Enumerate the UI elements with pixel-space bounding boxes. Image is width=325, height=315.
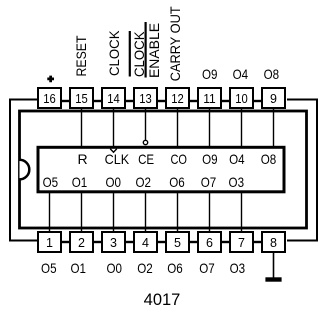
svg-text:O4: O4 bbox=[233, 66, 249, 82]
wire pin 4 to O2 bbox=[145, 192, 147, 231]
wire pin 7 to O3 bbox=[241, 192, 243, 231]
wire lead-frame loop left (pin 16 to pin 1) bbox=[10, 100, 38, 241]
svg-text:O4: O4 bbox=[229, 151, 245, 167]
wire pin 12 to CO bbox=[177, 109, 179, 147]
svg-text:O2: O2 bbox=[137, 260, 153, 276]
ground symbol bbox=[265, 277, 281, 281]
pin 13 bbox=[134, 88, 157, 108]
svg-text:O5: O5 bbox=[41, 260, 57, 276]
pin 14 bbox=[102, 88, 125, 108]
svg-text:O7: O7 bbox=[199, 260, 215, 276]
overline for ENABLE (pin 13) bbox=[145, 22, 147, 78]
wire pin 15 to R input bbox=[81, 109, 83, 147]
wire pin 2 to O1 bbox=[81, 192, 83, 231]
pin 12 bbox=[166, 88, 189, 108]
wire pin 5 to O6 bbox=[177, 192, 179, 231]
svg-text:1: 1 bbox=[46, 236, 53, 250]
svg-text:2: 2 bbox=[78, 236, 85, 250]
wire pin 11 to O9 bbox=[209, 109, 211, 147]
inversion bubble at CE input bbox=[143, 140, 147, 144]
pin 8 bbox=[262, 232, 285, 252]
svg-text:9: 9 bbox=[270, 92, 277, 106]
svg-text:O7: O7 bbox=[201, 174, 217, 190]
wire crossbar pins 4-5 bbox=[156, 241, 167, 243]
svg-text:CLOCK: CLOCK bbox=[131, 31, 147, 77]
wire pin 13 to CE bubble bbox=[145, 109, 147, 141]
pin 9 bbox=[262, 88, 285, 108]
wire pin 3 to O0 bbox=[113, 192, 115, 231]
svg-text:6: 6 bbox=[206, 236, 213, 250]
wire crossbar pins 15-14 bbox=[92, 100, 103, 102]
wire pin 14 to CLK input bbox=[113, 109, 115, 147]
wire crossbar pins 6-7 bbox=[220, 241, 231, 243]
pin 16 bbox=[38, 88, 61, 108]
pin 5 bbox=[166, 232, 189, 252]
svg-text:12: 12 bbox=[171, 92, 184, 106]
wire crossbar pins 16-15 bbox=[60, 100, 71, 102]
svg-text:4: 4 bbox=[142, 236, 149, 250]
svg-text:O3: O3 bbox=[230, 260, 246, 276]
pin 6 bbox=[198, 232, 221, 252]
svg-text:4017: 4017 bbox=[144, 291, 181, 309]
pin 4 bbox=[134, 232, 157, 252]
wire crossbar pins 11-10 bbox=[220, 100, 231, 102]
wire pin 6 to O7 bbox=[209, 192, 211, 231]
overline for CLOCK (pin 13) bbox=[129, 31, 131, 77]
wire crossbar pins 7-8 bbox=[252, 241, 263, 243]
wire pin 1 to O5 bbox=[49, 192, 51, 231]
svg-text:O6: O6 bbox=[169, 174, 185, 190]
wire crossbar pins 1-2 bbox=[60, 241, 71, 243]
pin 1 bbox=[38, 232, 61, 252]
wire crossbar pins 3-4 bbox=[124, 241, 135, 243]
svg-text:7: 7 bbox=[238, 236, 245, 250]
wire pin 8 to ground bbox=[273, 253, 275, 278]
pin 3 bbox=[102, 232, 125, 252]
svg-text:R: R bbox=[77, 151, 87, 167]
svg-text:O8: O8 bbox=[264, 66, 280, 82]
svg-text:O6: O6 bbox=[167, 260, 183, 276]
svg-text:CO: CO bbox=[170, 151, 187, 167]
svg-text:13: 13 bbox=[139, 92, 152, 106]
pin 2 bbox=[70, 232, 93, 252]
svg-text:CE: CE bbox=[138, 151, 154, 167]
wire pin 10 to O4 bbox=[241, 109, 243, 147]
svg-text:14: 14 bbox=[107, 92, 120, 106]
svg-text:CARRY OUT: CARRY OUT bbox=[167, 6, 183, 81]
clock edge triangle at CLK input bbox=[110, 149, 117, 152]
inner function block bbox=[38, 147, 284, 192]
svg-text:16: 16 bbox=[43, 92, 56, 106]
svg-text:O9: O9 bbox=[202, 66, 218, 82]
svg-text:O0: O0 bbox=[106, 260, 122, 276]
pin 10 bbox=[230, 88, 253, 108]
svg-text:O2: O2 bbox=[135, 174, 151, 190]
svg-text:15: 15 bbox=[75, 92, 88, 106]
svg-text:ENABLE: ENABLE bbox=[146, 23, 162, 78]
svg-text:O3: O3 bbox=[229, 174, 245, 190]
pin 7 bbox=[230, 232, 253, 252]
package notch (pin-1 index semicircle) bbox=[20, 160, 30, 180]
wire crossbar pins 13-12 bbox=[156, 100, 167, 102]
svg-text:10: 10 bbox=[235, 92, 248, 106]
svg-text:O1: O1 bbox=[70, 260, 86, 276]
wire crossbar pins 14-13 bbox=[124, 100, 135, 102]
svg-text:11: 11 bbox=[203, 92, 216, 106]
svg-text:8: 8 bbox=[270, 236, 277, 250]
svg-text:RESET: RESET bbox=[73, 35, 89, 76]
svg-text:O1: O1 bbox=[72, 174, 88, 190]
pin 11 bbox=[198, 88, 221, 108]
svg-text:5: 5 bbox=[174, 236, 181, 250]
wire crossbar pins 5-6 bbox=[188, 241, 199, 243]
wire lead-frame loop right (pin 9 to pin 8) bbox=[287, 100, 317, 241]
wire crossbar pins 12-11 bbox=[188, 100, 199, 102]
svg-text:O9: O9 bbox=[202, 151, 218, 167]
wire pin 9 to O8 bbox=[273, 109, 275, 147]
svg-text:CLK: CLK bbox=[105, 151, 130, 167]
svg-text:CLOCK: CLOCK bbox=[106, 30, 122, 76]
svg-text:O0: O0 bbox=[105, 174, 121, 190]
VDD plus symbol (pin 16) bbox=[47, 76, 54, 83]
wire crossbar pins 10-9 bbox=[252, 100, 263, 102]
IC package body U1 (4017) bbox=[20, 111, 307, 228]
svg-text:3: 3 bbox=[110, 236, 117, 250]
wire crossbar pins 2-3 bbox=[92, 241, 103, 243]
pin 15 bbox=[70, 88, 93, 108]
svg-text:O8: O8 bbox=[261, 151, 277, 167]
svg-text:O5: O5 bbox=[43, 174, 59, 190]
